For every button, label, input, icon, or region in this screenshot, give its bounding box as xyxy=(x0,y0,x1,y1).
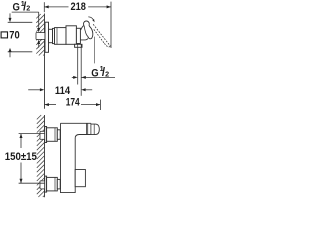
svg-text:70: 70 xyxy=(9,30,19,42)
opposing arrow at outlet thread (left side) xyxy=(72,76,78,79)
shower outlet socket (lower view square) xyxy=(75,170,85,187)
bottom union nut xyxy=(57,179,60,189)
dim 150+-15: extension lines xyxy=(19,133,45,135)
dim 70: bottom arrow xyxy=(9,48,12,57)
bottom S-union block xyxy=(47,177,58,191)
svg-text:2: 2 xyxy=(26,4,30,13)
leader line from lever tip down to G1/2 label (right) xyxy=(94,37,96,64)
swing arc with arrowhead (above lever) xyxy=(88,17,94,22)
embedded elbow top (lower view) xyxy=(40,131,45,139)
wall (lower view) hatching xyxy=(37,115,45,197)
cartridge housing (upper view) xyxy=(66,26,76,45)
lever (lower view): ring + cap xyxy=(86,123,99,134)
outlet pipe / extension lines down from port xyxy=(77,47,79,84)
svg-text:G: G xyxy=(13,1,20,13)
lever swung position (dashed) xyxy=(93,24,110,47)
label G 1/2 (right, shower outlet) xyxy=(81,64,115,79)
G 1/2 supply pipe embedded in wall (upper view) xyxy=(36,33,45,40)
wall surface line (lower view) xyxy=(44,115,46,197)
opposing arrow up to pipe bottom (thread dia) xyxy=(37,40,40,48)
lever collar xyxy=(76,28,80,43)
dim 174 right extension line xyxy=(99,100,101,110)
leader arrow from G1/2 label down to pipe top xyxy=(37,12,40,32)
top S-union block xyxy=(47,128,58,142)
dim 70: extension lines xyxy=(8,21,33,23)
mixer body (upper view) xyxy=(55,28,67,45)
label G 1/2 (top left) xyxy=(12,0,39,13)
svg-text:114: 114 xyxy=(55,85,70,97)
bottom S-union: escutcheon edge xyxy=(45,176,47,192)
body step ring xyxy=(53,28,55,43)
wall surface line (upper view) + dimension extension continuing down xyxy=(44,14,46,109)
mixer body (lower view) xyxy=(61,123,91,192)
shower outlet port (below body) xyxy=(75,44,82,47)
dim 174 xyxy=(45,96,101,110)
dim 114 xyxy=(28,85,92,97)
svg-text:150±15: 150±15 xyxy=(5,151,37,163)
top union nut xyxy=(57,130,60,140)
escutcheon plate (upper view, edge-on) xyxy=(45,22,49,52)
dim 218 xyxy=(44,1,111,48)
wall (upper view) hatching xyxy=(36,14,44,56)
svg-text:218: 218 xyxy=(71,1,86,13)
dim 70: top arrow xyxy=(9,13,12,22)
svg-text:174: 174 xyxy=(66,96,80,108)
lever handle (solid position, pointing up) xyxy=(81,21,93,40)
dim 150+-15: dimension line + arrows xyxy=(20,134,23,184)
union nut (upper view) xyxy=(49,29,53,42)
dim 70 text with square symbol xyxy=(1,30,20,42)
embedded elbow bottom (lower view) xyxy=(40,181,45,189)
top S-union: escutcheon edge xyxy=(45,127,47,143)
